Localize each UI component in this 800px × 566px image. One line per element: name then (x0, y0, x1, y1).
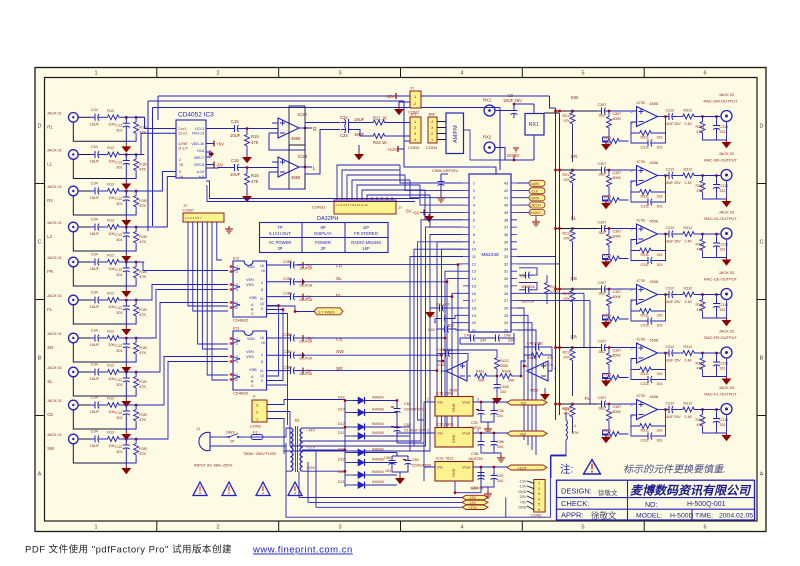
warning triangles row (193, 482, 302, 496)
svg-text:4: 4 (460, 525, 463, 531)
svg-text:IC3: IC3 (233, 326, 240, 331)
svg-text:16: 16 (260, 264, 264, 268)
svg-text:6: 6 (703, 71, 706, 77)
svg-text:32: 32 (504, 262, 508, 266)
A/B/C select wires exiting right of switch ICs (0, 0, 1, 1)
svg-text:10: 10 (472, 248, 476, 252)
svg-text:FR STEREO: FR STEREO (354, 231, 379, 236)
svg-text:L1: L1 (47, 162, 52, 167)
svg-text:B: B (760, 356, 764, 362)
svg-text:+5V: +5V (412, 211, 420, 216)
column numbers (94, 71, 706, 531)
sheet background (35, 68, 766, 532)
inner border (45, 78, 758, 522)
svg-text:1-In1: 1-In1 (178, 127, 186, 131)
svg-text:R: R (313, 127, 317, 133)
D21 (345, 484, 353, 486)
svg-text:4: 4 (473, 204, 475, 208)
svg-text:-33V: -33V (518, 495, 526, 499)
svg-text:3: 3 (538, 492, 540, 496)
svg-text:D24: D24 (338, 470, 345, 474)
svg-text:IC11 7905: IC11 7905 (436, 392, 453, 396)
svg-text:34: 34 (504, 248, 508, 252)
svg-text:FR: FR (47, 269, 53, 274)
svg-text:40: 40 (504, 204, 508, 208)
filter caps C88 C89 (384, 453, 432, 484)
svg-text:JRF: JRF (428, 112, 436, 117)
svg-text:3: 3 (477, 429, 479, 433)
svg-text:A: A (760, 472, 764, 478)
svg-text:5: 5 (179, 170, 181, 174)
svg-text:1: 1 (538, 482, 540, 486)
jack row SW (47, 430, 147, 474)
extra M62446 left-pin bundle wires (284, 242, 463, 451)
svg-text:RAC-SW-OUTPUT: RAC-SW-OUTPUT (704, 99, 738, 104)
svg-text:7: 7 (473, 226, 475, 230)
svg-text:1: 1 (427, 398, 429, 402)
svg-text:C428: C428 (500, 385, 509, 389)
svg-text:VSB: VSB (249, 368, 257, 372)
svg-text:R1: R1 (47, 124, 53, 129)
svg-text:35: 35 (504, 240, 508, 244)
svg-text:+13V: +13V (468, 506, 477, 510)
svg-text:IN4008: IN4008 (372, 408, 384, 412)
svg-text:D12: D12 (338, 422, 345, 426)
svg-text:FL: FL (47, 307, 53, 312)
svg-text:-5V: -5V (520, 401, 527, 406)
svg-text:GND: GND (518, 506, 527, 510)
svg-text:SW: SW (336, 349, 344, 355)
svg-text:2: 2 (473, 189, 475, 193)
svg-text:Vin: Vin (437, 465, 443, 470)
svg-text:334: 334 (480, 339, 486, 343)
svg-text:2: 2 (427, 429, 429, 433)
junction dots (344, 399, 398, 472)
SW net wire (297, 249, 463, 355)
R21 R22 (355, 116, 410, 160)
rails (322, 400, 345, 488)
ground for CON4 (355, 152, 363, 160)
svg-text:3: 3 (473, 196, 475, 200)
svg-text:DGND: DGND (507, 153, 519, 158)
B1 transformer (286, 418, 322, 473)
svg-text:C41 103: C41 103 (436, 303, 450, 307)
jack row SL (47, 363, 147, 407)
C30 C36 caps (480, 402, 482, 407)
svg-text:26: 26 (504, 307, 508, 311)
RX2 jack (483, 135, 495, 154)
svg-text:+5V: +5V (562, 407, 570, 412)
svg-text:RX1: RX1 (529, 122, 539, 128)
svg-text:16P: 16P (362, 246, 370, 251)
svg-text:104: 104 (497, 414, 503, 418)
svg-text:VSB: VSB (249, 296, 257, 300)
pin stubs left (463, 183, 517, 330)
svg-text:C45: C45 (428, 328, 435, 332)
svg-text:47K: 47K (251, 140, 259, 145)
svg-text:D: D (760, 124, 764, 130)
svg-text:RADIO: RADIO (530, 211, 541, 215)
svg-text:AM/FM: AM/FM (453, 125, 459, 143)
svg-text:POWER: POWER (315, 240, 331, 245)
svg-text:RAC-CE-OUTPUT: RAC-CE-OUTPUT (704, 277, 738, 282)
svg-text:36: 36 (504, 233, 508, 237)
C428 (496, 376, 498, 380)
svg-text:3: 3 (338, 71, 341, 77)
svg-text:L1: L1 (572, 424, 576, 428)
svg-text:P: P (253, 394, 256, 399)
svg-text:R16: R16 (251, 173, 259, 178)
svg-text:28: 28 (504, 292, 508, 296)
svg-text:DA5V: DA5V (531, 182, 541, 186)
svg-text:L/O-3: L/O-3 (195, 127, 204, 131)
svg-text:38: 38 (504, 218, 508, 222)
svg-text:APPR:: APPR: (561, 511, 584, 520)
analog switch IC3 (lower) (230, 326, 267, 396)
svg-text:24: 24 (504, 321, 508, 325)
svg-text:-5V: -5V (405, 209, 412, 214)
svg-text:C2B3: C2B3 (283, 260, 292, 264)
svg-text:C16: C16 (231, 158, 239, 163)
feedback cap C420 333 (437, 354, 443, 361)
svg-text:IN4008: IN4008 (372, 458, 384, 462)
svg-text:9: 9 (261, 379, 263, 383)
svg-text:4: 4 (460, 71, 463, 77)
svg-text:MODEL:: MODEL: (636, 513, 662, 520)
svg-text:+12V: +12V (384, 94, 395, 99)
pill -13V a (462, 495, 488, 499)
feedback wire around (442, 370, 446, 372)
IC31 gnd run (455, 468, 485, 493)
svg-text:2P: 2P (230, 440, 235, 444)
jack row CE (47, 396, 147, 440)
svg-text:18UF25V: 18UF25V (468, 457, 484, 461)
svg-text:5: 5 (236, 360, 238, 364)
FL net wire (297, 293, 463, 296)
svg-text:2: 2 (236, 270, 238, 274)
D23 (345, 452, 353, 454)
svg-text:CON4: CON4 (426, 145, 438, 150)
svg-text:10UF: 10UF (230, 133, 241, 138)
svg-text:H-500D: H-500D (670, 513, 694, 520)
C16 R16 network (206, 158, 272, 202)
SW3 switch (225, 430, 242, 444)
svg-text:14: 14 (472, 277, 476, 281)
S.T PASS yellow flag (267, 306, 344, 315)
svg-text:17: 17 (472, 299, 476, 303)
svg-text:DATA: DATA (531, 197, 540, 201)
svg-text:CON7: CON7 (183, 208, 195, 213)
svg-text:300K: 300K (500, 364, 509, 368)
RX1 tuner box (495, 104, 544, 161)
svg-text:JP1: JP1 (410, 112, 418, 117)
D12 (345, 426, 353, 428)
svg-text:IN4004: IN4004 (372, 422, 384, 426)
svg-text:徐敬文: 徐敬文 (591, 511, 617, 521)
svg-text:C48: C48 (504, 334, 511, 338)
svg-text:SR: SR (47, 345, 53, 350)
right pin numbers 43-22 (504, 182, 508, 333)
SR net wire (297, 242, 463, 371)
svg-text:15: 15 (261, 341, 265, 345)
svg-text:5: 5 (236, 288, 238, 292)
svg-text:2: 2 (216, 71, 219, 77)
svg-text:2: 2 (538, 487, 540, 491)
svg-text:C43: C43 (428, 314, 435, 318)
select bus wire from CD4052 a/b pins (206, 181, 419, 202)
svg-text:VSS-8: VSS-8 (194, 163, 204, 167)
svg-text:4558: 4558 (530, 389, 538, 393)
svg-text:VEE-7: VEE-7 (194, 156, 204, 160)
JRF CON4 connector (426, 112, 446, 151)
svg-text:9: 9 (473, 240, 475, 244)
svg-text:C86: C86 (497, 440, 504, 444)
svg-text:42: 42 (504, 189, 508, 193)
right pin wires: serial resistors and caps on pins 25-31 (519, 268, 558, 304)
svg-text:C88: C88 (384, 456, 391, 460)
svg-text:NO:: NO: (645, 502, 658, 509)
C908 decoupling cap (412, 168, 463, 216)
op-amp IC2B (269, 145, 316, 189)
svg-text:RX2: RX2 (483, 135, 492, 140)
svg-text:333: 333 (500, 390, 506, 394)
svg-text:12: 12 (472, 262, 476, 266)
svg-text:a-10: a-10 (197, 170, 204, 174)
output stage SR (554, 151, 737, 209)
bundle continuation down to power area (437, 265, 458, 433)
svg-text:SL: SL (47, 379, 53, 384)
svg-text:C87: C87 (497, 474, 504, 478)
svg-text:+5V: +5V (519, 432, 527, 437)
svg-text:Vin: Vin (437, 431, 443, 436)
subwoofer filter: IC3C op-amp (left-pointing) (437, 348, 522, 404)
jack row L2 (47, 218, 147, 262)
svg-text:注:: 注: (560, 463, 573, 476)
svg-text:R15: R15 (251, 134, 259, 139)
+5V and L1 inductor (551, 407, 579, 479)
svg-text:C: C (38, 240, 42, 246)
left pin bundle down to power section (300, 220, 463, 451)
D22 (345, 462, 353, 464)
svg-text:39K: 39K (478, 379, 485, 383)
svg-text:Vout: Vout (462, 400, 471, 405)
svg-text:CE: CE (571, 276, 578, 282)
svg-text:R421: R421 (476, 370, 485, 374)
svg-text:11: 11 (472, 255, 476, 259)
svg-text:C36: C36 (497, 409, 504, 413)
C4x caps loop at right pins (519, 268, 558, 304)
R421 (467, 375, 471, 377)
svg-text:C2B5: C2B5 (283, 292, 292, 296)
pin leads (527, 481, 534, 510)
svg-text:6: 6 (473, 218, 475, 222)
svg-text:R21 1K: R21 1K (373, 116, 387, 121)
svg-text:HI-6: HI-6 (197, 149, 204, 153)
svg-text:SW3: SW3 (226, 430, 235, 435)
svg-text:C908 URF25V: C908 URF25V (432, 168, 458, 173)
svg-text:11-L/T: 11-L/T (178, 147, 189, 151)
R/L output wires to CON4 (305, 123, 340, 175)
svg-text:2004.02.05: 2004.02.05 (719, 513, 753, 520)
three supply pills bottom (299, 452, 488, 510)
svg-text:47K: 47K (547, 356, 554, 360)
ground stub near CON7 (225, 226, 233, 233)
svg-text:R422: R422 (500, 359, 509, 363)
svg-text:5: 5 (581, 525, 584, 531)
caps on pins 22-24 right going down (460, 332, 514, 344)
svg-text:4: 4 (261, 281, 263, 285)
svg-text:31: 31 (504, 270, 508, 274)
column ticks top/bottom (35, 68, 766, 532)
svg-text:DESIGN:: DESIGN: (561, 487, 592, 496)
svg-text:IC21 7905: IC21 7905 (436, 423, 454, 427)
svg-text:CD4052 IC3: CD4052 IC3 (178, 112, 214, 119)
C15 R15 network (206, 119, 272, 163)
svg-text:1: 1 (94, 71, 97, 77)
svg-text:+5V: +5V (305, 263, 313, 268)
svg-text:TIME:: TIME: (695, 513, 713, 520)
svg-text:~13V: ~13V (306, 466, 315, 470)
left pin dots (230, 265, 233, 309)
secondary taps (302, 428, 322, 471)
svg-text:3: 3 (477, 398, 479, 402)
svg-text:DISPLAY: DISPLAY (314, 231, 332, 236)
svg-text:L: L (313, 166, 316, 172)
svg-text:CHECK:: CHECK: (561, 499, 589, 508)
svg-text:3P: 3P (320, 246, 325, 251)
D14 (345, 400, 353, 402)
svg-text:标示的元件更换要慎重.: 标示的元件更换要慎重. (623, 464, 726, 476)
jack row L1 (47, 145, 147, 189)
svg-text:16: 16 (260, 336, 264, 340)
svg-text:4: 4 (538, 497, 540, 501)
left input jack rows (47, 108, 147, 474)
svg-text:18UF2A: 18UF2A (299, 283, 313, 287)
svg-text:29: 29 (504, 284, 508, 288)
svg-text:D21: D21 (338, 480, 345, 484)
svg-text:22.00UF25V: 22.00UF25V (404, 429, 426, 433)
svg-text:9: 9 (261, 307, 263, 311)
svg-text:4558: 4558 (291, 175, 301, 180)
CON7 connector (183, 203, 224, 222)
svg-text:IN4008: IN4008 (372, 431, 384, 435)
svg-text:IC2A: IC2A (298, 112, 308, 117)
regulator input rail (424, 402, 435, 481)
svg-text:C89: C89 (412, 458, 419, 462)
svg-text:3P: 3P (277, 246, 282, 251)
svg-text:IN4004: IN4004 (372, 470, 384, 474)
svg-text:AC POWER: AC POWER (269, 240, 292, 245)
svg-text:CON31: CON31 (312, 205, 326, 210)
D13 (345, 412, 353, 414)
svg-text:104: 104 (497, 479, 503, 483)
voltage regulator IC31 (424, 457, 547, 499)
svg-text:2: 2 (216, 525, 219, 531)
svg-text:S.T PASS: S.T PASS (318, 311, 335, 315)
svg-text:RAC-FL-OUTPUT: RAC-FL-OUTPUT (704, 392, 737, 397)
CON2 wires right (267, 400, 345, 455)
row letters (38, 124, 764, 478)
svg-text:11: 11 (260, 369, 264, 373)
svg-text:2: 2 (414, 126, 416, 130)
svg-text:VSS: VSS (246, 355, 254, 359)
svg-text:19: 19 (472, 314, 476, 318)
P CON2 power connector (250, 394, 267, 429)
svg-text:SW: SW (47, 446, 54, 451)
AC plug J1 (194, 426, 286, 468)
svg-text:30: 30 (504, 277, 508, 281)
svg-text:-13V: -13V (518, 480, 526, 484)
svg-text:18UF 25V: 18UF 25V (503, 98, 522, 103)
svg-text:37: 37 (504, 226, 508, 230)
svg-text:+5V: +5V (305, 336, 313, 341)
rectifier diode bank (322, 396, 410, 489)
svg-text:C: C (251, 312, 254, 316)
svg-text:10UF: 10UF (230, 172, 241, 177)
svg-text:1 2 3 4 5 6 7 8 9 10 11 12: 1 2 3 4 5 6 7 8 9 10 11 12 (336, 203, 368, 207)
bottom long wires from power to right (286, 443, 506, 517)
pill +13V (462, 505, 488, 509)
svg-text:47K: 47K (572, 431, 579, 435)
svg-text:15: 15 (179, 163, 183, 167)
svg-text:IC2B: IC2B (298, 154, 308, 159)
svg-text:10: 10 (260, 374, 264, 378)
svg-text:8: 8 (261, 360, 263, 364)
svg-text:6: 6 (703, 525, 706, 531)
svg-text:VDD-16: VDD-16 (191, 142, 204, 146)
svg-text:RAC-SL-OUTPUT: RAC-SL-OUTPUT (704, 216, 737, 221)
svg-text:C3B: C3B (471, 452, 479, 456)
svg-text:~14V: ~14V (306, 429, 315, 433)
svg-text:徐敬文: 徐敬文 (598, 488, 618, 497)
svg-text:5: 5 (581, 71, 584, 77)
svg-text:VDD: VDD (247, 265, 255, 269)
CON31 main connector (312, 200, 403, 214)
svg-text:C15: C15 (231, 119, 239, 124)
svg-text:+12V: +12V (387, 147, 398, 152)
svg-text:C410 3B2: C410 3B2 (527, 342, 543, 346)
C9 cap (495, 93, 522, 118)
output stage FL (554, 385, 737, 443)
svg-text:14: 14 (179, 175, 183, 179)
jack row FL (47, 291, 147, 335)
svg-text:CD4B32: CD4B32 (233, 391, 249, 396)
svg-text:R418: R418 (527, 356, 536, 360)
svg-text:GND: GND (452, 468, 456, 477)
D11 (345, 435, 353, 437)
svg-text:C30: C30 (471, 421, 478, 425)
svg-text:C46: C46 (464, 334, 471, 338)
voltage regulator IC11 (424, 392, 547, 434)
svg-text:CON4: CON4 (408, 145, 420, 150)
svg-text:麦博数码资讯有限公司: 麦博数码资讯有限公司 (630, 484, 752, 498)
svg-text:15: 15 (261, 269, 265, 273)
svg-text:L2: L2 (47, 234, 52, 239)
svg-text:4: 4 (431, 120, 433, 124)
FR net wire (297, 263, 463, 266)
svg-text:FL: FL (585, 396, 591, 402)
svg-text:7: 7 (440, 370, 442, 374)
svg-text:A: A (38, 472, 42, 478)
-5V pill (507, 400, 547, 405)
svg-text:4: 4 (261, 353, 263, 357)
svg-text:-6V: -6V (216, 163, 223, 168)
output stage SL (554, 210, 737, 268)
svg-text:SR: SR (336, 366, 343, 372)
svg-text:SW: SW (571, 95, 579, 101)
feedback loop (269, 167, 305, 189)
svg-text:1 2 3 4 5 6 7: 1 2 3 4 5 6 7 (185, 216, 202, 220)
